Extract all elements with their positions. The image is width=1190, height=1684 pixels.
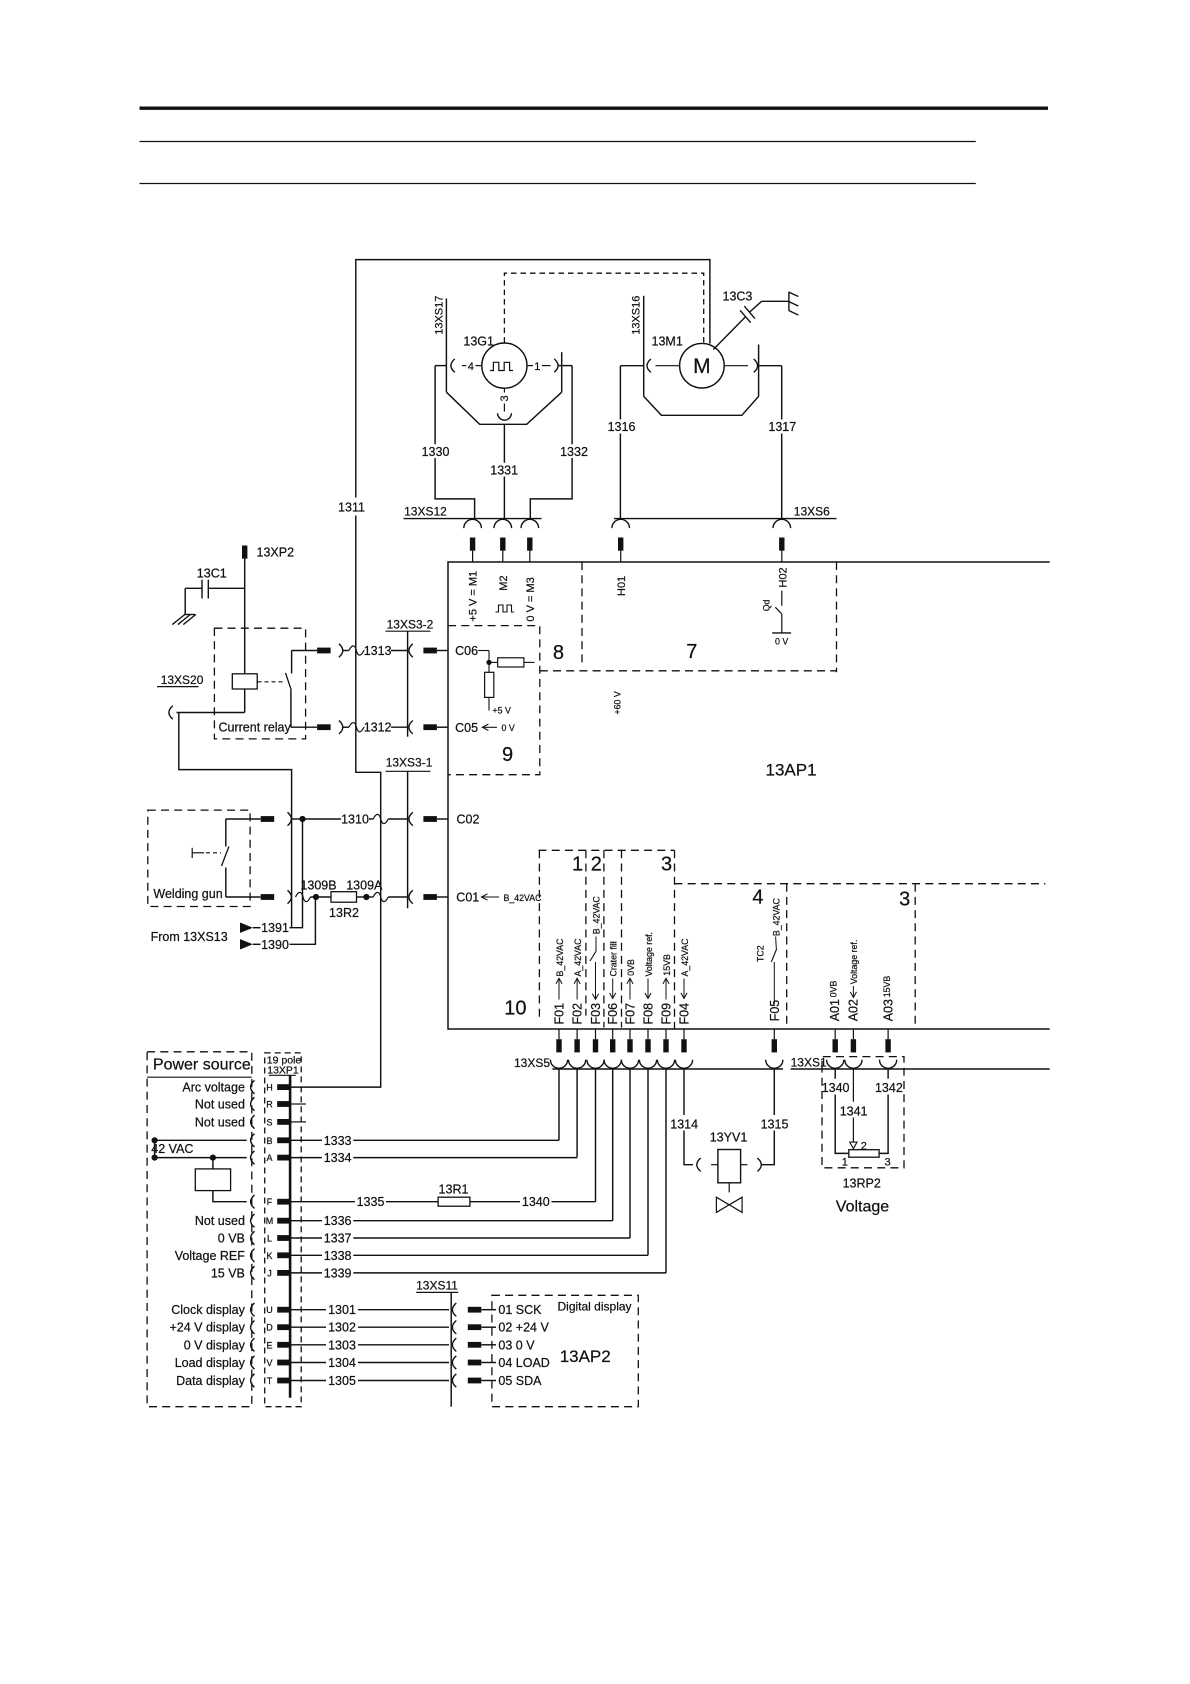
svg-text:1: 1 <box>842 1157 848 1169</box>
svg-text:Load display: Load display <box>175 1356 246 1370</box>
wire 1341 wiper <box>850 1069 867 1152</box>
current relay dashed box <box>214 628 305 739</box>
13XS11 arc row 1303 <box>452 1338 456 1351</box>
wire 1335 <box>291 1195 438 1209</box>
region 1-2-3 top dashed line <box>539 849 675 851</box>
13XS5 cups <box>550 1060 783 1069</box>
pin F01 with B_42VAC arrow <box>553 938 567 1025</box>
header rule 2 <box>140 183 976 185</box>
wire C01 right <box>366 892 408 901</box>
region label 9 <box>502 744 513 766</box>
svg-text:+60 V: +60 V <box>613 691 623 714</box>
wire C01 squiggle over 1391 riser <box>296 892 311 901</box>
svg-text:1315: 1315 <box>761 1117 789 1131</box>
svg-text:13M1: 13M1 <box>652 335 683 349</box>
svg-text:TC2: TC2 <box>756 945 766 962</box>
wire 1337 <box>291 1232 630 1246</box>
svg-text:M: M <box>266 1216 274 1226</box>
svg-text:D: D <box>266 1323 273 1333</box>
13XS11 arc row 1302 <box>452 1321 456 1334</box>
wire 1312 right <box>391 726 408 728</box>
svg-text:13XS3-2: 13XS3-2 <box>387 618 434 632</box>
19-pole pin A <box>251 1151 291 1164</box>
row 1313 board pin <box>423 648 448 654</box>
42 VAC link <box>151 1140 193 1157</box>
region 2 right dashed divider <box>603 850 605 1027</box>
label Power source <box>153 1057 251 1074</box>
region label 3b <box>899 889 910 911</box>
svg-text:1340: 1340 <box>822 1081 850 1095</box>
wire label 1342 <box>875 1081 903 1095</box>
svg-text:B_42VAC: B_42VAC <box>555 938 565 977</box>
svg-text:H02: H02 <box>777 567 789 587</box>
row 1312 board pin <box>423 724 448 730</box>
wire 1313 right <box>391 650 408 652</box>
wire label 1316 <box>608 420 636 434</box>
wire to 13R2 <box>311 896 332 898</box>
13XS12 pin M1 <box>470 538 475 563</box>
wire label 1310 <box>341 813 369 827</box>
svg-text:F06: F06 <box>606 1003 620 1025</box>
svg-text:Clock display: Clock display <box>171 1303 245 1317</box>
pin label H02 <box>777 567 789 605</box>
svg-text:1390: 1390 <box>261 938 289 952</box>
row C02 board arc <box>409 812 413 825</box>
svg-text:Power source: Power source <box>153 1057 251 1074</box>
svg-text:1342: 1342 <box>875 1081 903 1095</box>
arrow 1391 <box>240 923 261 933</box>
svg-text:A01: A01 <box>828 999 842 1021</box>
wire label 1341 <box>840 1104 868 1118</box>
pin label 0V=M3 <box>525 577 537 621</box>
svg-text:1: 1 <box>572 854 583 876</box>
motor 13M1 <box>652 335 725 389</box>
svg-text:1301: 1301 <box>328 1303 356 1317</box>
potentiometer element 13RP2 <box>842 1150 891 1169</box>
region 7 right dashed divider <box>836 562 838 672</box>
svg-text:0VB: 0VB <box>829 981 839 998</box>
svg-text:13XP2: 13XP2 <box>257 546 295 560</box>
transformer winding <box>195 1169 230 1191</box>
arc voltage wire H to 1311 <box>291 772 381 1087</box>
pin note +60V <box>613 691 623 714</box>
svg-text:1336: 1336 <box>324 1214 352 1228</box>
region 8 dashed divider <box>581 562 583 663</box>
svg-text:C05: C05 <box>455 721 478 735</box>
svg-text:13C1: 13C1 <box>197 567 227 581</box>
wire label 1312 <box>364 721 392 735</box>
region 3b right dashed edge <box>914 884 916 1029</box>
svg-text:H01: H01 <box>616 576 628 596</box>
svg-text:15 VB: 15 VB <box>211 1266 245 1280</box>
svg-text:1310: 1310 <box>341 813 369 827</box>
svg-text:1304: 1304 <box>328 1356 356 1370</box>
node 1309A <box>346 879 383 901</box>
transformer to pin F <box>213 1191 247 1202</box>
svg-text:B: B <box>266 1136 272 1146</box>
digital pin 03 0 V <box>468 1338 535 1352</box>
svg-text:1338: 1338 <box>324 1249 352 1263</box>
solenoid valve 13YV1 <box>697 1131 762 1183</box>
svg-text:J: J <box>267 1268 272 1278</box>
svg-text:E: E <box>266 1340 272 1350</box>
wire 1332 <box>530 366 572 518</box>
wire label 1390 <box>261 938 289 952</box>
13XS1 cups <box>827 1060 897 1069</box>
plug 13XP2 <box>242 546 294 674</box>
svg-text:+24 V display: +24 V display <box>169 1321 245 1335</box>
svg-text:+5 V = M1: +5 V = M1 <box>468 571 480 622</box>
19 pole connector dashed box <box>265 1053 302 1407</box>
digital pin 02 +24 V <box>468 1321 550 1335</box>
connector 13XS3-2 <box>386 618 434 737</box>
wire 1340 <box>835 1069 849 1153</box>
svg-text:13XS12: 13XS12 <box>404 505 447 519</box>
connector bus 13XP1 <box>289 1075 292 1398</box>
13G1 pin 3 dashed stub <box>499 388 511 411</box>
wire 1339 <box>291 1266 666 1280</box>
svg-text:13XS5: 13XS5 <box>514 1056 550 1070</box>
pin F07 with 0VB arrow <box>624 959 638 1025</box>
svg-text:C06: C06 <box>455 644 478 658</box>
svg-text:1335: 1335 <box>357 1195 385 1209</box>
relay coil <box>177 674 258 713</box>
svg-text:13AP1: 13AP1 <box>766 761 817 780</box>
svg-text:Not used: Not used <box>195 1098 245 1112</box>
svg-text:9: 9 <box>502 744 513 766</box>
wire F07 to 1337 <box>629 1069 631 1238</box>
svg-text:Voltage REF: Voltage REF <box>175 1249 246 1263</box>
svg-text:V: V <box>266 1358 272 1368</box>
pin S stub <box>291 1121 306 1123</box>
svg-text:Voltage ref.: Voltage ref. <box>644 932 654 977</box>
13XS12 pin M3 <box>527 538 532 563</box>
svg-text:03 0 V: 03 0 V <box>498 1338 535 1352</box>
wire 1338 <box>291 1249 648 1263</box>
svg-text:1309A: 1309A <box>346 879 383 893</box>
19-pole pin V <box>175 1356 291 1370</box>
svg-text:T: T <box>267 1376 273 1386</box>
wire 1304 <box>291 1356 449 1370</box>
board bottom pins to 13XS5 <box>556 1029 891 1052</box>
wire label 1330 <box>422 445 450 459</box>
svg-text:3: 3 <box>885 1157 891 1169</box>
svg-text:K: K <box>266 1251 272 1261</box>
capacitor 13C1 <box>185 567 245 615</box>
wire F02 to 1334 <box>576 1069 578 1158</box>
svg-text:Digital display: Digital display <box>558 1300 632 1314</box>
19-pole pin F <box>251 1195 291 1208</box>
wire label 1331 <box>490 464 518 478</box>
connector rail 13XS1 <box>791 1056 1050 1070</box>
wire G1 pin4 stub <box>435 365 446 367</box>
19-pole pin J <box>211 1266 291 1280</box>
19-pole pin L <box>218 1231 291 1245</box>
svg-text:A_42VAC: A_42VAC <box>573 938 583 977</box>
connector rail 13XS6 <box>614 505 837 519</box>
svg-text:From 13XS13: From 13XS13 <box>151 930 228 944</box>
svg-text:13XS20: 13XS20 <box>161 673 204 687</box>
svg-text:F07: F07 <box>624 1003 638 1025</box>
region label 3 <box>661 854 672 876</box>
pin A02 with Voltage ref arrow <box>847 940 861 1022</box>
pin F08 with Voltage ref arrow <box>642 932 656 1025</box>
13XS6 pin H01 <box>618 538 623 563</box>
13XS11 arc row 1304 <box>452 1356 456 1369</box>
svg-text:05 SDA: 05 SDA <box>498 1374 542 1388</box>
svg-text:13RP2: 13RP2 <box>843 1177 881 1191</box>
pin F05 with switch TC2 <box>756 897 782 1021</box>
svg-text:Data display: Data display <box>176 1374 246 1388</box>
wire 1301 <box>291 1303 449 1317</box>
svg-text:13R1: 13R1 <box>439 1183 469 1197</box>
node on 1310 <box>299 816 305 822</box>
wire 1303 <box>291 1338 449 1352</box>
connector rail 13XS12 <box>404 505 542 519</box>
svg-text:F01: F01 <box>553 1003 567 1025</box>
svg-text:13G1: 13G1 <box>463 335 494 349</box>
svg-text:4: 4 <box>752 887 763 909</box>
region 1 left dashed edge <box>538 850 540 1017</box>
svg-text:42 VAC: 42 VAC <box>151 1142 193 1156</box>
wire 1316 <box>619 366 621 518</box>
svg-text:Crater fill: Crater fill <box>608 941 618 976</box>
connector 13XS20 <box>157 673 204 719</box>
svg-text:Voltage: Voltage <box>836 1199 889 1216</box>
wire 1317 <box>781 366 783 518</box>
power source title underline <box>147 1076 252 1078</box>
pin label C05 with 0V arrow <box>455 721 515 735</box>
wire label 1340 <box>822 1081 850 1095</box>
pin F04 with A_42VAC arrow <box>678 938 692 1025</box>
pin F09 with 15VB arrow <box>660 954 674 1024</box>
region 4 right dashed edge <box>786 884 788 1029</box>
svg-text:F: F <box>267 1197 273 1207</box>
svg-text:1331: 1331 <box>490 464 518 478</box>
gun bottom arc <box>288 890 292 903</box>
connector 13XS3-1 <box>386 756 433 909</box>
wire label 1317 <box>768 420 796 434</box>
13XS12 pin M2 <box>500 538 505 563</box>
valve symbol <box>716 1183 742 1213</box>
svg-text:B_42VAC: B_42VAC <box>592 896 602 935</box>
welding gun switch <box>192 819 229 897</box>
region label 1 <box>572 854 583 876</box>
wire 1391 riser to 1310 <box>290 819 303 928</box>
potentiometer 13RP2 dashed box <box>822 1057 904 1168</box>
region 3 right dashed edge <box>674 850 676 1028</box>
svg-text:1334: 1334 <box>324 1151 352 1165</box>
svg-text:1330: 1330 <box>422 445 450 459</box>
row 1312 arc <box>339 721 343 734</box>
svg-text:A_42VAC: A_42VAC <box>680 938 690 977</box>
svg-text:+5 V: +5 V <box>493 706 511 716</box>
resistor network at C06 <box>478 651 534 716</box>
svg-text:10: 10 <box>504 997 526 1019</box>
13G1 cable outline <box>446 392 561 424</box>
svg-text:13R2: 13R2 <box>329 906 359 920</box>
label From 13XS13 <box>151 930 228 944</box>
wire 1331 <box>503 424 505 518</box>
svg-text:Not used: Not used <box>195 1214 245 1228</box>
wire 1310 <box>303 818 342 820</box>
region label 7 <box>686 641 697 663</box>
wire label 1315 <box>761 1117 789 1131</box>
label Digital display <box>558 1300 632 1314</box>
svg-text:1341: 1341 <box>840 1104 868 1118</box>
wire label 1313 <box>364 644 392 658</box>
wire 1312 <box>343 723 364 732</box>
wire 1311 vertical and top feeder run <box>356 260 710 773</box>
connector rail 13XS5 <box>514 1056 783 1070</box>
wire from 13XS20 down <box>179 713 292 928</box>
pcb label 13AP2 <box>560 1347 611 1366</box>
gun top arc <box>288 812 292 825</box>
transformer node <box>210 1155 216 1169</box>
row 1312 board arc <box>409 721 413 734</box>
svg-text:13XS16: 13XS16 <box>631 296 643 335</box>
wire 1305 <box>291 1374 449 1388</box>
wire 1314 <box>684 1069 693 1165</box>
wire F09 to 1339 <box>665 1069 667 1273</box>
switch Qd inside board <box>762 599 782 632</box>
row C01 board pin <box>423 894 448 900</box>
19-pole pin E <box>184 1338 291 1352</box>
svg-text:13XS6: 13XS6 <box>794 505 830 519</box>
svg-text:Not used: Not used <box>195 1115 245 1129</box>
svg-text:1311: 1311 <box>338 501 365 515</box>
13XS6 cup H01 <box>612 519 630 528</box>
42 VAC node B <box>152 1137 247 1143</box>
region label 8 <box>553 642 564 664</box>
svg-text:13YV1: 13YV1 <box>710 1131 748 1145</box>
svg-text:1309B: 1309B <box>300 879 336 893</box>
13G1 pin 4 link <box>462 361 482 373</box>
svg-text:2: 2 <box>861 1140 867 1152</box>
svg-text:U: U <box>266 1305 273 1315</box>
svg-text:13XS11: 13XS11 <box>416 1279 458 1293</box>
svg-text:M2: M2 <box>498 575 510 590</box>
19-pole pin T <box>176 1374 291 1388</box>
svg-text:M: M <box>693 355 711 378</box>
tacho generator 13G1 <box>463 335 527 389</box>
13M1 cable outline <box>644 345 759 416</box>
svg-text:1391: 1391 <box>261 921 289 935</box>
svg-text:L: L <box>267 1234 272 1244</box>
svg-text:Voltage ref.: Voltage ref. <box>849 940 859 985</box>
svg-text:H: H <box>266 1083 273 1093</box>
svg-text:A03: A03 <box>881 999 895 1021</box>
chassis ground for 13C1 <box>172 615 196 625</box>
svg-text:02 +24 V: 02 +24 V <box>498 1321 549 1335</box>
region 9 dashed box <box>448 626 540 775</box>
power source dashed box <box>147 1052 252 1407</box>
resistor 13R1 <box>438 1183 470 1207</box>
svg-text:F08: F08 <box>642 1003 656 1025</box>
svg-text:A: A <box>266 1153 272 1163</box>
region label 2 <box>591 854 602 876</box>
pin label C02 <box>457 813 480 827</box>
connector 13XS11 <box>416 1279 458 1407</box>
svg-text:1303: 1303 <box>328 1338 356 1352</box>
svg-text:0 V: 0 V <box>502 723 515 733</box>
pin label C06 <box>455 644 478 658</box>
svg-text:B_42VAC: B_42VAC <box>504 893 543 903</box>
svg-text:1316: 1316 <box>608 420 636 434</box>
svg-text:13XP1: 13XP1 <box>267 1065 299 1077</box>
svg-text:1337: 1337 <box>324 1232 352 1246</box>
svg-text:1305: 1305 <box>328 1374 356 1388</box>
region label 10 <box>504 997 526 1019</box>
19-pole pin S <box>195 1115 291 1129</box>
wire 1336 <box>291 1214 613 1228</box>
label Welding gun <box>153 887 222 901</box>
dashed sync link 13G1 to 13M1 <box>504 273 703 343</box>
wire F01 to 1333 <box>558 1069 560 1140</box>
svg-text:Welding gun: Welding gun <box>153 887 222 901</box>
wire 1316 feeder <box>620 365 643 367</box>
svg-text:13XS17: 13XS17 <box>434 296 446 335</box>
svg-text:8: 8 <box>553 642 564 664</box>
region label 4 <box>752 887 763 909</box>
svg-text:C02: C02 <box>457 813 480 827</box>
svg-text:Arc voltage: Arc voltage <box>182 1081 245 1095</box>
pin F06 with Crater fill arrow <box>606 941 620 1024</box>
svg-text:1312: 1312 <box>364 721 392 735</box>
label Current relay <box>219 721 292 735</box>
digital pin 01 SCK <box>468 1303 542 1317</box>
wire label 1314 <box>670 1117 698 1131</box>
wire F03 to 1340 <box>595 1069 597 1202</box>
pin A01 with 0VB <box>828 981 842 1022</box>
svg-text:04 LOAD: 04 LOAD <box>498 1356 549 1370</box>
svg-text:1333: 1333 <box>324 1134 352 1148</box>
42 VAC node A <box>152 1155 247 1161</box>
wire 1342 <box>879 1069 888 1153</box>
svg-text:4: 4 <box>468 361 474 373</box>
svg-text:13AP2: 13AP2 <box>560 1347 611 1366</box>
gun top pin <box>261 816 275 822</box>
svg-text:Current relay: Current relay <box>219 721 292 735</box>
13G1 left arc <box>451 359 455 372</box>
row 1313 left pin <box>317 648 331 654</box>
wire 1302 <box>291 1321 449 1335</box>
svg-text:01 SCK: 01 SCK <box>498 1303 542 1317</box>
digital pin 04 LOAD <box>468 1356 550 1370</box>
region 2b dashed divider <box>621 850 623 1027</box>
svg-text:Qd: Qd <box>762 599 772 611</box>
row 1312 left pin <box>317 724 331 730</box>
wire 1340 row <box>470 1195 596 1209</box>
wire 1333 <box>291 1134 559 1148</box>
region 4 top dashed line <box>675 883 1046 885</box>
wire F06 to 1336 <box>612 1069 614 1221</box>
svg-text:1314: 1314 <box>670 1117 698 1131</box>
svg-text:1339: 1339 <box>324 1266 352 1280</box>
label 19 pole 13XP1 <box>267 1055 302 1077</box>
19-pole pin D <box>169 1321 290 1335</box>
page title rule (thick) <box>140 106 1049 109</box>
header rule 1 <box>140 141 976 143</box>
13XS11 arc row 1301 <box>452 1303 456 1316</box>
svg-text:F02: F02 <box>571 1003 585 1025</box>
svg-text:1: 1 <box>534 361 540 373</box>
pin F02 with A_42VAC arrow <box>571 938 585 1025</box>
label Voltage <box>836 1199 889 1216</box>
svg-text:1332: 1332 <box>560 445 588 459</box>
arrow 1390 <box>240 939 261 949</box>
svg-text:0 V: 0 V <box>775 637 788 647</box>
